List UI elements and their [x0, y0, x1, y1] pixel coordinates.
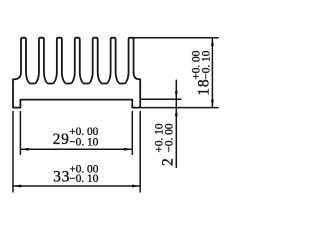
- dimension 18 line: [211, 38, 213, 108]
- svg-text:−0. 10: −0. 10: [69, 173, 98, 185]
- dimension 29 line: [20, 148, 132, 150]
- svg-text:−0. 00: −0. 00: [163, 123, 175, 152]
- svg-text:2: 2: [160, 157, 177, 166]
- svg-text:−0. 10: −0. 10: [201, 50, 213, 79]
- extension line top (fin top to 18-dim): [134, 37, 219, 39]
- svg-text:−0. 10: −0. 10: [69, 137, 98, 149]
- svg-text:29: 29: [53, 131, 70, 148]
- vertical extension lines below profile: [12, 111, 14, 193]
- dimension 33 line: [13, 185, 140, 187]
- dimension 2 leader: [175, 80, 177, 168]
- svg-text:18: 18: [196, 79, 213, 96]
- text 18 (rotated): [190, 50, 212, 95]
- text 2 (rotated): [153, 123, 176, 166]
- extension line foot-top (for 2-dim): [140, 98, 181, 100]
- svg-text:33: 33: [53, 169, 70, 186]
- heatsink profile outline: [13, 38, 140, 108]
- extension line bottom (to 18-dim): [140, 107, 219, 109]
